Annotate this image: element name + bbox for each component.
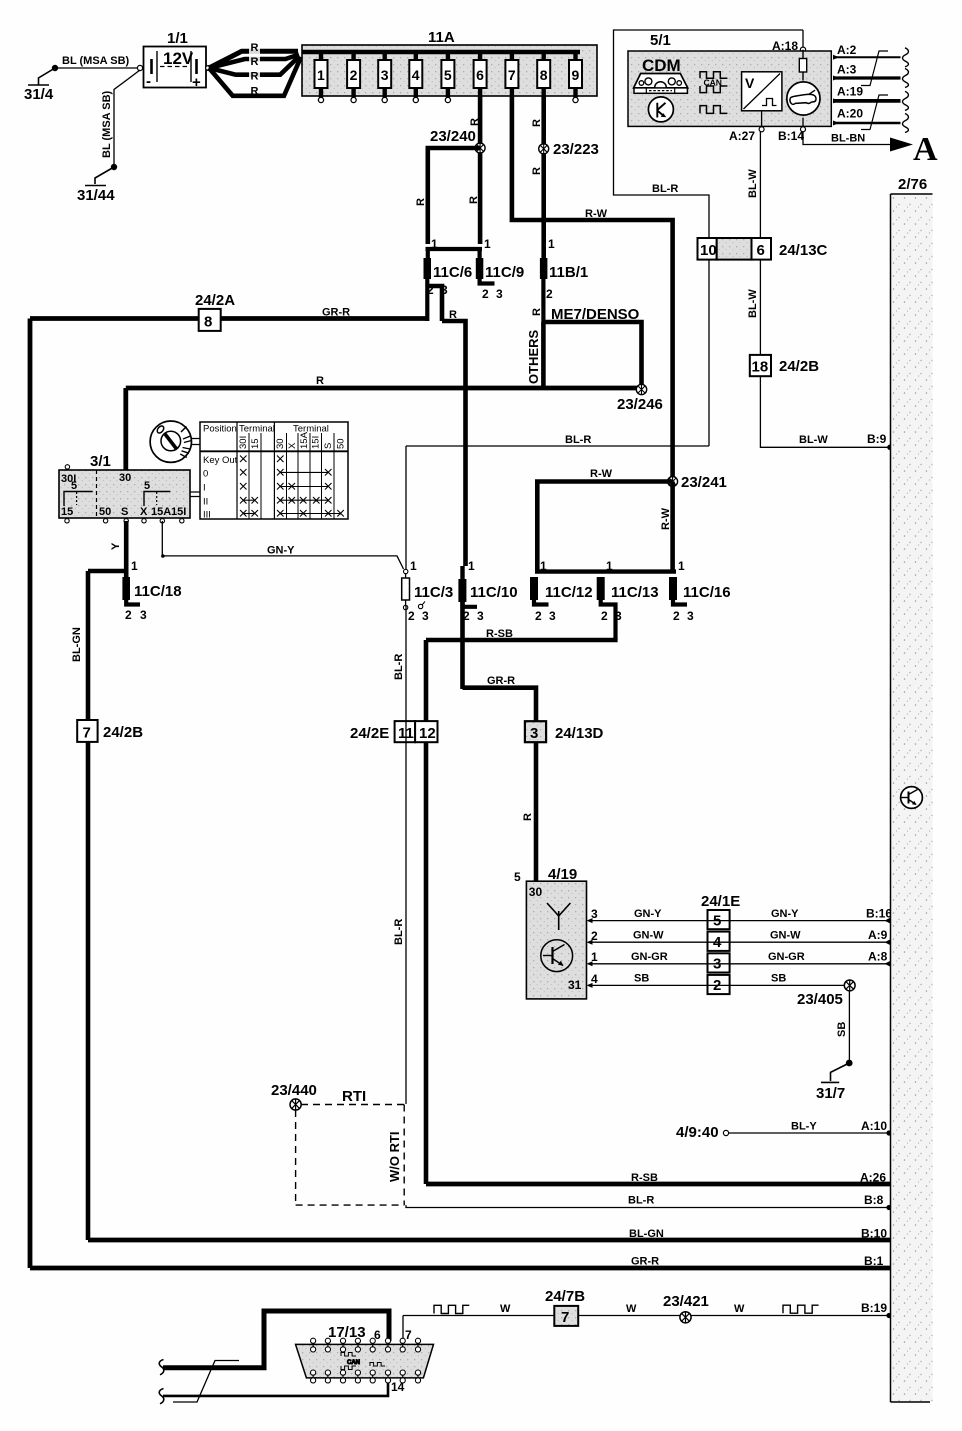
- svg-text:15A: 15A: [151, 506, 171, 518]
- svg-text:S: S: [323, 443, 334, 449]
- svg-text:8: 8: [540, 67, 548, 83]
- 4/19 pin numbers: [591, 907, 598, 986]
- splice 23/440: [271, 1082, 317, 1110]
- battery 1/1: [144, 30, 211, 91]
- pin B:14: [778, 118, 806, 143]
- svg-text:R-W: R-W: [660, 507, 672, 530]
- ground 31/44: [77, 164, 117, 204]
- svg-text:R: R: [522, 813, 534, 821]
- wire BL-R to B:8: [406, 1193, 892, 1210]
- svg-text:BL (MSA SB): BL (MSA SB): [101, 90, 113, 158]
- wire Y from S terminal: [110, 521, 138, 577]
- row 0 line: [280, 471, 328, 473]
- connector 11C/18: [122, 577, 181, 622]
- svg-text:4: 4: [412, 67, 420, 83]
- svg-text:30: 30: [529, 885, 543, 899]
- svg-text:31/7: 31/7: [816, 1085, 845, 1102]
- fuse inside 5/1: [799, 50, 806, 81]
- svg-text:5: 5: [71, 480, 77, 492]
- svg-text:Key Out: Key Out: [203, 455, 238, 466]
- svg-text:GN-Y: GN-Y: [634, 908, 662, 920]
- svg-text:7: 7: [83, 725, 91, 742]
- svg-text:11C/12: 11C/12: [545, 584, 593, 601]
- svg-text:R: R: [531, 119, 543, 127]
- svg-text:7: 7: [405, 1328, 412, 1342]
- connector 11C/10: [458, 559, 517, 689]
- svg-text:GN-Y: GN-Y: [267, 545, 295, 557]
- voltage converter icon: [742, 72, 782, 111]
- pin A:27: [729, 111, 764, 143]
- 17/13 pins bottom row: [311, 1370, 421, 1383]
- svg-text:R: R: [251, 71, 259, 83]
- svg-text:+: +: [192, 74, 201, 91]
- svg-text:SB: SB: [634, 973, 649, 985]
- wire BL-BN with arrow A: [803, 131, 938, 168]
- twisted pair slash 17/13: [173, 1361, 239, 1403]
- svg-text:III: III: [203, 510, 211, 521]
- CAN symbol: [700, 72, 727, 114]
- svg-text:11B/1: 11B/1: [549, 264, 588, 281]
- wire GR-R to B:1: [30, 1254, 891, 1268]
- svg-text:11C/13: 11C/13: [611, 584, 659, 601]
- fuse 5: [441, 52, 454, 103]
- svg-text:5: 5: [444, 67, 452, 83]
- wire GN-Y pin3 to B:16: [587, 907, 893, 924]
- svg-text:23/421: 23/421: [663, 1293, 709, 1310]
- svg-text:30: 30: [275, 438, 286, 449]
- svg-text:18: 18: [752, 359, 769, 376]
- svg-text:B:1: B:1: [864, 1254, 884, 1268]
- svg-text:23/440: 23/440: [271, 1082, 317, 1099]
- R-W loop to connectors: [535, 468, 676, 572]
- svg-text:A:8: A:8: [868, 950, 888, 964]
- svg-text:15I: 15I: [311, 436, 322, 449]
- svg-text:23/405: 23/405: [797, 991, 843, 1008]
- wire BL (MSA SB) to battery: [55, 55, 143, 71]
- svg-text:BL-GN: BL-GN: [71, 627, 83, 662]
- row II lines: [243, 499, 255, 501]
- svg-text:11A: 11A: [428, 29, 455, 46]
- svg-text:7: 7: [508, 67, 516, 83]
- svg-text:CAN: CAN: [347, 1360, 360, 1366]
- svg-text:R: R: [415, 198, 427, 206]
- wire SB pin4 to splice: [587, 973, 850, 988]
- splice 23/240: [430, 128, 485, 153]
- wire BL-R vertical: [393, 605, 406, 1104]
- svg-text:R-SB: R-SB: [486, 628, 513, 640]
- svg-text:V: V: [745, 75, 755, 91]
- svg-text:23/223: 23/223: [553, 141, 599, 158]
- svg-text:50: 50: [336, 438, 347, 449]
- pin A:20 wire: [833, 107, 908, 133]
- svg-text:24/13D: 24/13D: [555, 725, 604, 742]
- cluster icon: [634, 74, 688, 94]
- svg-text:2: 2: [408, 609, 415, 623]
- node A:18: [772, 30, 806, 58]
- svg-text:A:19: A:19: [837, 85, 863, 99]
- svg-text:6: 6: [476, 67, 484, 83]
- fuse 8: [537, 52, 550, 96]
- svg-text:R-W: R-W: [590, 468, 613, 480]
- svg-text:W: W: [626, 1303, 637, 1315]
- table row marks: [240, 456, 344, 517]
- svg-text:9: 9: [572, 67, 580, 83]
- wire to ground 31/44: [101, 70, 140, 167]
- switch contact right: [144, 480, 170, 506]
- svg-text:3: 3: [687, 609, 694, 623]
- svg-text:A:9: A:9: [868, 928, 888, 942]
- pin A:2 wire: [833, 43, 908, 67]
- 17/13 inner CAN glyphs: [341, 1353, 385, 1370]
- connector 11C/13: [597, 559, 659, 640]
- svg-text:30I: 30I: [238, 436, 249, 449]
- svg-text:GR-R: GR-R: [631, 1256, 659, 1268]
- svg-text:B:9: B:9: [867, 432, 887, 446]
- splice 23/405: [797, 980, 855, 1008]
- svg-text:1: 1: [410, 559, 417, 573]
- svg-text:23/241: 23/241: [681, 474, 727, 491]
- connector 11C/6: [424, 249, 473, 321]
- row I line: [280, 486, 328, 488]
- transistor icon in 2/76: [901, 787, 923, 809]
- unit 5/1 outer wire frame: [614, 30, 804, 446]
- car odometer icon: [787, 82, 820, 115]
- svg-text:B:8: B:8: [864, 1193, 884, 1207]
- svg-text:12V: 12V: [163, 49, 194, 68]
- wire jog 11C/6 pin2 to R vertical: [428, 286, 466, 566]
- svg-text:GN-Y: GN-Y: [771, 908, 799, 920]
- 17/13 pins top row: [311, 1338, 421, 1352]
- connector 11C/3: [402, 559, 454, 623]
- connector 24/7B (7): [545, 1288, 585, 1326]
- CDM box: [628, 51, 831, 126]
- svg-text:3: 3: [615, 609, 622, 623]
- connector 11B/1: [531, 237, 588, 322]
- svg-text:R-W: R-W: [585, 208, 608, 220]
- connector 24/2B (7): [77, 720, 143, 742]
- svg-text:31: 31: [568, 978, 582, 992]
- svg-text:A: A: [913, 131, 938, 168]
- switch to table stub: [190, 492, 200, 497]
- switch terminals: [65, 465, 184, 523]
- svg-text:SB: SB: [836, 1022, 848, 1037]
- svg-text:1: 1: [540, 559, 547, 573]
- pin A:3 wire: [833, 63, 908, 88]
- svg-text:11C/9: 11C/9: [485, 264, 524, 281]
- svg-text:BL-R: BL-R: [565, 434, 591, 446]
- connector bar 2/76: [891, 176, 933, 1402]
- node 4/9:40 with BL-Y: [676, 1119, 892, 1141]
- splice 23/246: [617, 384, 663, 413]
- svg-text:24/2A: 24/2A: [195, 292, 235, 309]
- connector 11C/9: [476, 249, 524, 301]
- svg-text:BL-R: BL-R: [652, 183, 678, 195]
- splice 23/421: [663, 1293, 709, 1323]
- svg-text:B:14: B:14: [778, 129, 804, 143]
- svg-text:24/1E: 24/1E: [701, 893, 740, 910]
- svg-text:2: 2: [350, 67, 358, 83]
- svg-text:15A: 15A: [299, 431, 310, 449]
- svg-text:R: R: [468, 196, 480, 204]
- svg-text:W: W: [500, 1303, 511, 1315]
- svg-text:3: 3: [549, 609, 556, 623]
- svg-text:R: R: [531, 167, 543, 175]
- svg-text:BL-W: BL-W: [747, 289, 759, 318]
- wire SB down to ground: [836, 991, 849, 1063]
- svg-text:GR-R: GR-R: [487, 675, 515, 687]
- svg-text:RTI: RTI: [342, 1088, 366, 1105]
- fuse 9: [569, 52, 582, 103]
- svg-text:1: 1: [131, 559, 138, 573]
- wire BL-W from A:27: [747, 132, 893, 450]
- wire GN-W pin2 to A:9: [587, 928, 891, 945]
- svg-text:1: 1: [484, 237, 491, 251]
- wire branch BL-GN: [71, 571, 126, 1240]
- svg-text:R: R: [251, 42, 259, 54]
- clock icon: [648, 97, 673, 122]
- wire thick to pin 6: [159, 1311, 389, 1375]
- wire GR-R 24/2A run: [30, 307, 428, 1269]
- svg-text:6: 6: [757, 242, 765, 259]
- fuse 1: [315, 52, 328, 103]
- wire GR-R to 24/13D: [463, 675, 537, 721]
- ground 31/7: [816, 1060, 853, 1102]
- svg-text:5: 5: [514, 870, 521, 884]
- svg-text:CDM: CDM: [642, 56, 681, 75]
- svg-text:30: 30: [119, 472, 131, 484]
- svg-text:OTHERS: OTHERS: [526, 330, 541, 385]
- svg-text:50: 50: [99, 506, 111, 518]
- svg-text:R: R: [251, 56, 259, 68]
- svg-text:31/44: 31/44: [77, 187, 115, 204]
- dial to table stub: [192, 439, 201, 445]
- wire R-SB: [426, 628, 618, 1184]
- svg-text:BL-R: BL-R: [393, 919, 405, 945]
- wire branch to 11C/6: [415, 148, 480, 244]
- connector 11C/12: [530, 559, 593, 623]
- connector 24/2A (8): [195, 292, 235, 331]
- svg-text:23/240: 23/240: [430, 128, 476, 145]
- svg-text:7: 7: [561, 1309, 569, 1326]
- pulse signal symbol near B:19: [783, 1305, 819, 1313]
- svg-text:B:10: B:10: [861, 1227, 887, 1241]
- svg-text:Y: Y: [110, 542, 122, 550]
- connector 24/2E (11,12): [350, 721, 438, 742]
- wire W line to B:19: [403, 1301, 892, 1318]
- RTI / W-O RTI dashed option box: [296, 1088, 405, 1205]
- antenna symbol: [547, 903, 570, 930]
- svg-text:A:27: A:27: [729, 129, 755, 143]
- svg-text:BL-BN: BL-BN: [831, 133, 865, 145]
- svg-text:I: I: [203, 483, 206, 494]
- svg-text:11C/16: 11C/16: [683, 584, 731, 601]
- connector 11C/16: [669, 559, 731, 623]
- svg-text:R: R: [531, 308, 543, 316]
- row III lines: [243, 513, 255, 515]
- svg-text:B:19: B:19: [861, 1301, 887, 1315]
- wire OTHERS branch: [526, 322, 543, 388]
- fuse 6: [474, 52, 487, 96]
- svg-text:GR-R: GR-R: [322, 307, 350, 319]
- battery feed wires R x4: [209, 42, 301, 98]
- svg-text:3: 3: [140, 608, 147, 622]
- wire R-SB to A:26: [426, 1171, 891, 1185]
- wire fuse8 down: [531, 96, 544, 258]
- wire fuse7 to 23/241: [512, 96, 673, 479]
- wire BL-R horizontal: [406, 434, 709, 570]
- svg-text:24/2B: 24/2B: [779, 358, 819, 375]
- key position dial: [150, 421, 191, 462]
- svg-text:Position: Position: [203, 424, 237, 435]
- connector 24/1E: [701, 893, 740, 994]
- svg-text:10: 10: [700, 242, 717, 259]
- svg-text:R: R: [251, 86, 259, 98]
- svg-text:BL-R: BL-R: [628, 1195, 654, 1207]
- svg-text:4/9:40: 4/9:40: [676, 1124, 719, 1141]
- fuse 3: [378, 52, 391, 103]
- svg-text:W/O RTI: W/O RTI: [387, 1131, 402, 1182]
- svg-text:SB: SB: [771, 973, 786, 985]
- connector 24/13C: [698, 238, 828, 260]
- svg-text:2: 2: [482, 287, 489, 301]
- pin1 bus 11C/6-11C/9: [426, 237, 492, 251]
- twisted pair slash A:2/A:3: [861, 51, 888, 86]
- transistor circle in 4/19: [541, 940, 573, 972]
- svg-text:R: R: [449, 309, 457, 321]
- svg-text:GN-GR: GN-GR: [631, 951, 668, 963]
- svg-text:1/1: 1/1: [167, 30, 188, 47]
- svg-text:R: R: [469, 118, 481, 126]
- svg-text:Terminal: Terminal: [239, 424, 275, 435]
- twisted pair slash A:19/A:20: [861, 95, 888, 130]
- svg-text:II: II: [203, 497, 208, 508]
- wire GN-GR pin1 to A:8: [587, 950, 891, 967]
- svg-text:15: 15: [61, 506, 73, 518]
- fuse 4: [409, 52, 422, 103]
- connector 24/2B (18): [750, 355, 819, 376]
- svg-text:1: 1: [548, 237, 555, 251]
- wire pin 7 to W line: [403, 1305, 469, 1341]
- svg-text:3: 3: [422, 609, 429, 623]
- switch contact left: [64, 480, 93, 506]
- svg-text:24/13C: 24/13C: [779, 242, 828, 259]
- key position table: [200, 422, 348, 521]
- wire GN-Y from 15A: [161, 521, 403, 569]
- svg-text:2: 2: [601, 609, 608, 623]
- fuse 2: [347, 52, 360, 103]
- svg-text:12: 12: [419, 725, 436, 742]
- svg-text:S: S: [121, 506, 128, 518]
- svg-text:3/1: 3/1: [90, 453, 111, 470]
- fuse 7: [505, 52, 518, 96]
- svg-text:8: 8: [204, 314, 212, 331]
- svg-text:W: W: [734, 1303, 745, 1315]
- svg-text:11C/10: 11C/10: [470, 584, 518, 601]
- wire thin to pin 14: [159, 1381, 388, 1404]
- wire BL-GN to B:10: [88, 1227, 891, 1241]
- splice 23/241: [668, 474, 727, 491]
- svg-text:0: 0: [203, 469, 208, 480]
- svg-text:1: 1: [678, 559, 685, 573]
- svg-text:2: 2: [125, 608, 132, 622]
- wire fuse6 down: [468, 96, 481, 244]
- svg-text:3: 3: [477, 609, 484, 623]
- svg-text:1: 1: [431, 237, 438, 251]
- svg-text:11C/18: 11C/18: [134, 583, 182, 600]
- svg-text:A:26: A:26: [860, 1171, 886, 1185]
- svg-text:2/76: 2/76: [898, 176, 927, 193]
- splice 23/223: [539, 141, 599, 158]
- pin A:19 wire: [833, 85, 908, 111]
- antenna amplifier 4/19 box: [514, 866, 587, 999]
- svg-text:BL-W: BL-W: [747, 169, 759, 198]
- svg-text:A:20: A:20: [837, 107, 863, 121]
- svg-text:B:16: B:16: [866, 907, 892, 921]
- svg-text:2: 2: [546, 287, 553, 301]
- fuse box 11A body: [302, 29, 597, 96]
- svg-text:BL-R: BL-R: [393, 654, 405, 680]
- svg-text:1: 1: [317, 67, 325, 83]
- svg-text:-: -: [146, 73, 151, 90]
- svg-text:24/2B: 24/2B: [103, 724, 143, 741]
- svg-text:15: 15: [250, 438, 261, 449]
- svg-text:A:2: A:2: [837, 43, 857, 57]
- svg-text:24/2E: 24/2E: [350, 725, 389, 742]
- svg-text:1: 1: [468, 559, 475, 573]
- svg-text:3: 3: [530, 725, 538, 742]
- svg-text:GN-GR: GN-GR: [768, 951, 805, 963]
- wire ME7/DENSO branch: [543, 306, 641, 389]
- svg-text:BL-Y: BL-Y: [791, 1121, 817, 1133]
- svg-text:3: 3: [496, 287, 503, 301]
- svg-text:11C/3: 11C/3: [414, 584, 453, 601]
- svg-text:BL-W: BL-W: [799, 434, 828, 446]
- R line to ignition switch: [126, 375, 642, 470]
- connector 24/13D (3): [522, 721, 604, 881]
- svg-text:24/7B: 24/7B: [545, 1288, 585, 1305]
- svg-text:23/246: 23/246: [617, 396, 663, 413]
- svg-text:15I: 15I: [171, 506, 186, 518]
- svg-text:1: 1: [606, 559, 613, 573]
- svg-text:11C/6: 11C/6: [433, 264, 472, 281]
- ignition switch 3/1 body: [59, 453, 190, 518]
- connector 17/13 body: [296, 1324, 434, 1394]
- svg-text:31/4: 31/4: [24, 86, 54, 103]
- ground 31/4: [24, 65, 58, 103]
- svg-text:GN-W: GN-W: [770, 930, 801, 942]
- svg-text:BL (MSA SB): BL (MSA SB): [62, 55, 130, 67]
- svg-text:A:10: A:10: [861, 1119, 887, 1133]
- svg-text:3: 3: [381, 67, 389, 83]
- svg-text:2: 2: [673, 609, 680, 623]
- svg-text:X: X: [140, 506, 148, 518]
- svg-text:X: X: [287, 442, 298, 449]
- svg-text:BL-GN: BL-GN: [629, 1228, 664, 1240]
- svg-text:5/1: 5/1: [650, 32, 671, 49]
- bus bar: [302, 50, 580, 55]
- svg-text:GN-W: GN-W: [633, 930, 664, 942]
- svg-text:5: 5: [144, 480, 150, 492]
- svg-text:R-SB: R-SB: [631, 1172, 658, 1184]
- svg-text:2: 2: [535, 609, 542, 623]
- svg-text:A:3: A:3: [837, 63, 857, 77]
- svg-text:R: R: [316, 375, 324, 387]
